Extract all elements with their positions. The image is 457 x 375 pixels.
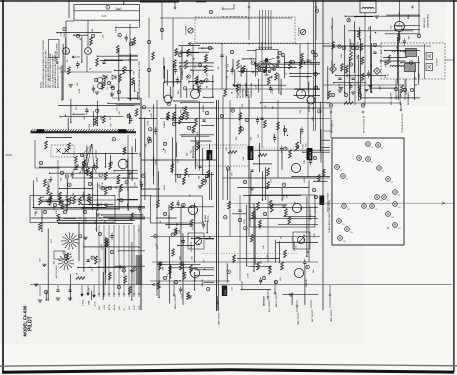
wire zTR v10 xyxy=(348,58,350,101)
wire zPS v1 xyxy=(41,210,43,231)
audio bus line y236 xyxy=(150,236,320,238)
resistor zTL r2 xyxy=(68,67,71,75)
terminal arrows bottom row xyxy=(98,293,100,295)
svg-text:100K: 100K xyxy=(274,133,276,138)
ground zTR g13 xyxy=(375,15,379,17)
svg-text:TUBE LAYOUT (BOTTOM VIEW): TUBE LAYOUT (BOTTOM VIEW) xyxy=(328,200,331,233)
ground zTR g14 xyxy=(364,88,368,90)
resistor zTR r17 xyxy=(361,57,364,65)
capacitor zCol c4 xyxy=(154,129,157,131)
long vertical x58 xyxy=(57,160,59,200)
switch plus terminal b xyxy=(270,76,273,79)
wire zCol h1 xyxy=(140,117,157,119)
junction zTC1 j7 xyxy=(193,58,194,59)
ref circle zA1 n0 xyxy=(154,235,157,238)
wire zML v10 xyxy=(118,189,120,210)
capacitor C41 xyxy=(180,205,183,207)
wire zTR h4 xyxy=(395,29,420,31)
ref circle 36 xyxy=(163,276,166,279)
wire zTC1 v5 xyxy=(173,64,175,87)
wire zML h1 xyxy=(34,208,119,210)
resistor zC2 r1 xyxy=(239,113,242,121)
wire zPS h6 xyxy=(63,218,76,220)
ref circle 20 xyxy=(172,122,175,125)
ref circle zMLtop n1 xyxy=(127,114,130,117)
svg-text:AF AMP ECC83: AF AMP ECC83 xyxy=(309,205,312,220)
wire top right drop 2 xyxy=(315,10,317,40)
ref circle 14 xyxy=(361,104,364,107)
ref circle TRa xyxy=(338,45,341,48)
svg-text:56K: 56K xyxy=(169,215,171,219)
wire zC2 v10 xyxy=(265,167,267,200)
capacitor zTR c8 xyxy=(384,62,387,64)
junction dot A xyxy=(129,71,131,73)
wire zML h7 xyxy=(123,177,138,179)
ref circle bus c xyxy=(314,72,317,75)
wire selector drop left xyxy=(192,44,194,89)
wire zTC2 h7 xyxy=(290,72,320,74)
svg-text:LEFT OUTPUT: LEFT OUTPUT xyxy=(312,308,314,322)
resistor zTL r6 xyxy=(123,67,126,75)
svg-text:15K: 15K xyxy=(54,260,56,264)
svg-text:6.8K: 6.8K xyxy=(115,28,117,33)
plus marks row y72 xyxy=(252,71,255,74)
capacitor zTC1 c6 xyxy=(174,69,177,71)
wire zPS h10 xyxy=(98,266,124,268)
ref circle TRb xyxy=(351,46,354,49)
svg-text:V18: V18 xyxy=(350,232,353,234)
wire zA1 h2 xyxy=(166,224,192,226)
wire zTR v7 xyxy=(417,56,419,85)
wire zTC1 v10 xyxy=(170,87,172,98)
ref circle zPS n5 xyxy=(133,267,136,270)
wire zML v12 xyxy=(86,146,88,168)
ref circle zC2 n8 xyxy=(240,127,243,130)
resistor R41 xyxy=(157,200,160,208)
wire zTR v13 xyxy=(359,38,361,100)
wire zTL h8 xyxy=(105,59,138,61)
wire x240 drop xyxy=(239,195,241,210)
IF transformer T301 winding xyxy=(392,51,406,52)
svg-text:56K: 56K xyxy=(61,177,63,181)
resistor R65 xyxy=(79,197,82,205)
capacitor zA1 c16 xyxy=(177,202,180,204)
cable bundle verticals xyxy=(98,225,100,297)
svg-text:PARALLEL AC SUPPLY: PARALLEL AC SUPPLY xyxy=(56,42,59,64)
capacitor zPS c21 xyxy=(138,207,141,209)
ref circle zC2 n4 xyxy=(318,110,321,113)
ref circle zTC1 n17 xyxy=(205,79,208,82)
svg-text:82K: 82K xyxy=(180,256,182,260)
svg-text:220K: 220K xyxy=(37,177,39,182)
resistor zC1 r15 xyxy=(201,179,204,187)
channel selector rotary switch S1 xyxy=(265,58,268,61)
wire zA1 h1 xyxy=(206,238,214,240)
resistor R26 horizontal xyxy=(228,151,237,154)
wire zTR v12 xyxy=(414,71,416,100)
svg-text:33K: 33K xyxy=(189,80,191,84)
wire zTC2 h1 xyxy=(243,58,266,60)
capacitor C201 xyxy=(220,54,223,56)
dotted control linkage xyxy=(196,147,300,149)
svg-text:PILOT: PILOT xyxy=(28,316,34,331)
long wire row y178 xyxy=(222,177,330,179)
svg-text:BASS: BASS xyxy=(209,153,212,159)
wire V10 to out transformer xyxy=(194,278,196,281)
capacitor C303 xyxy=(351,77,354,79)
svg-text:V11: V11 xyxy=(387,200,390,202)
wire zTR v2 xyxy=(331,18,333,74)
svg-text:270K: 270K xyxy=(260,224,262,229)
svg-text:LIMITER 6AU6: LIMITER 6AU6 xyxy=(427,13,430,28)
long wire row y108 xyxy=(160,107,330,109)
resistor R43 xyxy=(257,202,260,210)
capacitor C63 xyxy=(86,259,89,261)
svg-text:82K: 82K xyxy=(180,109,182,113)
tube layout socket V16 xyxy=(386,212,391,217)
wire right col v xyxy=(307,42,309,89)
svg-text:6.8K: 6.8K xyxy=(196,82,198,87)
svg-text:TU PIVC: TU PIVC xyxy=(437,58,439,66)
wire zTC2 v11 xyxy=(232,59,234,71)
diode CR101 xyxy=(103,75,107,79)
resistor zMLtop r2 xyxy=(103,116,106,124)
capacitor zTR c23 xyxy=(403,40,406,42)
ref circle bus a xyxy=(315,9,318,12)
wire into box from top xyxy=(123,1,125,5)
wire zTR v5 xyxy=(353,21,355,73)
resistor zTC1 r4 xyxy=(187,49,190,57)
svg-text:270K: 270K xyxy=(244,219,246,224)
svg-text:V6: V6 xyxy=(382,171,384,173)
wire zTL h5 xyxy=(57,32,102,34)
svg-text:AUDIO OUTPUT: AUDIO OUTPUT xyxy=(174,294,177,309)
wire center drop xyxy=(221,44,223,89)
wire zTC2 v8 xyxy=(280,79,282,95)
AM loop antenna circle 1 xyxy=(97,77,102,82)
svg-text:GND: GND xyxy=(89,300,91,305)
wire from IF box down xyxy=(405,79,407,95)
resistor zA1 r10 xyxy=(157,281,160,289)
svg-text:220K: 220K xyxy=(311,59,313,64)
svg-text:2.2K: 2.2K xyxy=(178,158,180,163)
wire zA1 v4 xyxy=(170,264,172,278)
svg-text:2.2K: 2.2K xyxy=(255,84,257,89)
wire zTC1 h0 xyxy=(191,69,214,71)
ref circle 19 xyxy=(53,203,56,206)
wire zA2 h5 xyxy=(277,242,318,244)
ref circle zTL n9 xyxy=(63,27,66,30)
wire zTL v4 xyxy=(130,54,132,100)
wire zA2 h1 xyxy=(278,223,318,225)
bundle dark terminating block xyxy=(136,255,142,285)
svg-text:1M: 1M xyxy=(182,240,184,243)
tube layout socket V7 xyxy=(341,174,346,179)
svg-text:4 FT TERMINAL 2: 4 FT TERMINAL 2 xyxy=(236,83,239,98)
ref circle zTC2 n13 xyxy=(260,54,263,57)
ground G6 xyxy=(198,185,202,187)
svg-text:V4: V4 xyxy=(371,162,373,164)
ref circle zC2 n13 xyxy=(226,167,229,170)
resistor zC2 r3 xyxy=(318,174,321,182)
wire stub with plus 1 xyxy=(174,2,176,9)
svg-text:15K: 15K xyxy=(391,92,393,96)
wire zCol v1 xyxy=(144,118,146,188)
ref circle 31 xyxy=(147,40,150,43)
resistor R5 xyxy=(83,160,86,168)
wire zTL v3 xyxy=(134,81,136,91)
ref circle top 211 xyxy=(209,10,212,13)
junction zTC1 j3 xyxy=(193,88,194,89)
wire zA1 v8 xyxy=(180,207,182,265)
selector spoke arrowheads xyxy=(259,65,261,67)
resistor zTC2 r1 xyxy=(264,65,267,73)
junction zTC1 j15 xyxy=(193,85,194,86)
wire zA2 v0 xyxy=(279,241,281,263)
resistor zA2 r9 xyxy=(250,234,253,242)
wire zML v1 xyxy=(127,189,129,211)
ref circle 21 xyxy=(187,126,190,129)
resistor R32 xyxy=(267,168,270,176)
junction zA2 j17 xyxy=(300,208,301,209)
svg-text:6.8K: 6.8K xyxy=(257,70,259,75)
wire zMLtop v4 xyxy=(70,99,72,123)
wire zTC2 h11 xyxy=(238,70,265,72)
AM loop antenna circle 2 xyxy=(97,83,102,88)
heater stub left xyxy=(39,285,41,296)
svg-text:DISC OUT: DISC OUT xyxy=(391,95,393,105)
switch plus terminal a xyxy=(263,69,266,72)
ref circle 39 xyxy=(274,280,277,283)
svg-text:15K: 15K xyxy=(61,31,63,35)
resistor zTR r5 xyxy=(360,43,363,51)
capacitor zA1 c11 xyxy=(179,288,182,290)
ref circle 22 xyxy=(245,118,248,121)
resistor zTC1 r8 xyxy=(205,55,208,63)
wire zC1 v3 xyxy=(198,101,200,170)
svg-text:82K: 82K xyxy=(178,90,180,94)
ref circle 45 xyxy=(110,250,113,253)
tube layout socket V3 xyxy=(357,156,362,161)
svg-text:VOLUME: VOLUME xyxy=(186,26,188,35)
svg-text:V9: V9 xyxy=(398,195,400,197)
resistor zTR r1 xyxy=(358,30,361,38)
top bus drop x162 xyxy=(161,1,163,40)
wire zTL h2 xyxy=(115,69,133,71)
ground zTR g25 xyxy=(339,86,343,88)
long vertical x249b xyxy=(248,100,250,178)
wire zML v2 xyxy=(83,161,85,210)
capacitor zTC2 c16 xyxy=(254,62,257,64)
AC interlock box xyxy=(74,5,140,21)
ref circle zA2 n7 xyxy=(224,216,227,219)
wire zTL v2 xyxy=(118,49,120,100)
wire zTC1 v8 xyxy=(164,66,166,83)
resistor zC1 r3 xyxy=(207,170,210,178)
ground G3 xyxy=(338,89,342,91)
wire zA2 v4 xyxy=(263,296,265,305)
svg-text:V20: V20 xyxy=(343,241,346,243)
svg-text:V19: V19 xyxy=(398,228,401,230)
tube layout socket V15 xyxy=(393,202,398,207)
svg-text:8 FT TERMINAL 1: 8 FT TERMINAL 1 xyxy=(239,83,242,98)
wire zC2 h2 xyxy=(260,102,330,104)
wire zA1 v5 xyxy=(194,272,196,290)
wire zTL h7 xyxy=(118,54,138,56)
selector contact arc xyxy=(277,56,280,59)
wire zML h5 xyxy=(82,203,113,205)
wire zMLtop h1 xyxy=(116,104,140,106)
resistor zTC2 r12 xyxy=(242,66,245,74)
resistor R8 xyxy=(59,192,62,200)
resistor zC1 r12 xyxy=(182,177,185,185)
resistor zA1 r2 xyxy=(187,292,190,300)
tube layout socket V13 xyxy=(362,204,367,209)
ref circle zTC2 n15 xyxy=(241,69,244,72)
resistor zTR r2 xyxy=(345,66,348,74)
svg-text:10K: 10K xyxy=(191,255,193,259)
capacitor zML c25 xyxy=(93,165,96,167)
junction zA2 j11 xyxy=(303,235,304,236)
ref circle 1 xyxy=(129,42,132,45)
wire zTL h4 xyxy=(127,98,138,100)
resistor R61 xyxy=(39,197,42,205)
wire zPS h4 xyxy=(57,219,135,221)
capacitor zMLtop c5 xyxy=(85,109,88,111)
treble boxed label A xyxy=(248,146,254,160)
capacitor zTL c10 xyxy=(76,63,79,65)
AC plug symbol xyxy=(106,5,110,9)
wire zTC1 h1 xyxy=(179,45,201,47)
svg-text:GND: GND xyxy=(99,305,101,310)
wire power row bottom xyxy=(32,217,114,219)
ref circle 30 xyxy=(311,50,314,53)
resistor R27 horizontal xyxy=(258,154,267,157)
arrow osc output xyxy=(400,103,402,110)
wire zTC1 h10 xyxy=(180,65,213,67)
tube layout socket V18 xyxy=(345,227,350,232)
resistor zPS r16 xyxy=(106,239,109,247)
tube V101 AM RF xyxy=(63,48,70,55)
resistor zPS r17 xyxy=(124,276,127,284)
svg-text:A C: A C xyxy=(102,14,108,18)
wire zC2 v3 xyxy=(250,172,252,195)
note box switch positions xyxy=(49,40,60,58)
resistor R50 xyxy=(281,262,284,270)
wire zC1 h2 xyxy=(174,100,198,102)
wire zC2 h6 xyxy=(243,195,301,197)
wire zTC1 v6 xyxy=(166,70,168,86)
ref circle zML n17 xyxy=(125,181,128,184)
wire zTL h0 xyxy=(97,55,138,57)
resistor zA1 r6 xyxy=(172,249,175,257)
resistor zC1 r4 xyxy=(192,126,195,134)
pot arrow A xyxy=(197,142,200,150)
svg-text:270K: 270K xyxy=(248,272,250,277)
resistor zA1 r4 xyxy=(190,219,193,227)
svg-text:47K: 47K xyxy=(231,172,233,176)
wire zC2 h8 xyxy=(322,146,330,148)
ref circle zPS n0 xyxy=(79,235,82,238)
capacitor zTC2 c4 xyxy=(231,69,234,71)
wire zA2 v5 xyxy=(306,196,308,256)
svg-text:V14: V14 xyxy=(375,209,378,211)
svg-text:AUX OUTPUT: AUX OUTPUT xyxy=(268,299,271,312)
wire zPS v8 xyxy=(45,292,47,301)
resistor zC1 r8 xyxy=(184,106,187,114)
long wire row y89 xyxy=(188,88,311,90)
wire zML v7 xyxy=(104,153,106,167)
svg-text:2.2K: 2.2K xyxy=(135,182,137,187)
junction zA1 j14 xyxy=(179,280,180,281)
tube V5 FM IF ECC85 xyxy=(190,89,199,98)
ref circle 6 xyxy=(208,46,211,49)
tube V8 AF amp ECC83 xyxy=(188,205,197,214)
svg-text:2.2K: 2.2K xyxy=(151,112,153,117)
resistor zTC2 r17 xyxy=(236,84,239,92)
svg-text:33K: 33K xyxy=(414,76,416,80)
wire hline y98 left xyxy=(112,97,141,99)
wire zA2 h8 xyxy=(232,213,246,215)
resistor zMLtop r6 xyxy=(135,109,138,117)
svg-text:220K: 220K xyxy=(164,185,166,190)
tube layout socket V5 xyxy=(335,165,340,170)
tone box B xyxy=(293,232,310,249)
test point diamond TP2 xyxy=(374,68,381,75)
resistor zC1 r11 xyxy=(182,113,185,121)
wire zML h13 xyxy=(50,172,138,174)
wire zA2 h6 xyxy=(272,204,287,206)
svg-text:LOUDNESS: LOUDNESS xyxy=(294,240,296,251)
resistor zC2 r11 xyxy=(322,169,325,177)
ref circle 18 xyxy=(108,186,111,189)
tape output stub 1 xyxy=(296,300,298,312)
svg-text:V7: V7 xyxy=(346,179,348,181)
selector switch wafer B xyxy=(68,263,73,264)
main B+ horizontal line xyxy=(30,284,452,286)
ref circle zML n7 xyxy=(112,138,115,141)
ref circle 3 xyxy=(117,90,120,93)
wire zC1 v5 xyxy=(192,146,194,158)
wire zTC2 v1 xyxy=(234,70,236,87)
wire from coil down xyxy=(364,13,366,105)
AM loop dashed box xyxy=(51,145,74,157)
ganged tuning dashed link xyxy=(222,16,248,18)
resistor zA2 r10 xyxy=(285,209,288,217)
wire zCol h3 xyxy=(151,159,160,161)
ref circle zTR n9 xyxy=(409,61,412,64)
bass boxed label B xyxy=(307,148,313,160)
ground G11 xyxy=(56,297,60,299)
svg-text:56K: 56K xyxy=(313,269,315,273)
ref circle 40 xyxy=(238,218,241,221)
wire zA1 h6 xyxy=(191,206,214,208)
ref circle 4 xyxy=(178,53,181,56)
wire zA2 v8 xyxy=(253,203,255,271)
wire zTR v9 xyxy=(344,25,346,93)
capacitor C62 xyxy=(104,203,107,205)
wire zPS v6 xyxy=(78,222,80,261)
wire zMLtop h0 xyxy=(108,102,140,104)
wire x396 stub below box xyxy=(395,79,397,100)
junction zCol j7 xyxy=(149,110,150,111)
resistor zTC2 r19 xyxy=(259,54,262,62)
mixer tube V4 6BZ7 xyxy=(118,159,128,169)
ref circle zML n5 xyxy=(68,183,71,186)
resistor zA2 r2 xyxy=(284,250,287,258)
wire zC1 h4 xyxy=(201,124,214,126)
bus top thick segment 2 xyxy=(196,0,206,2)
